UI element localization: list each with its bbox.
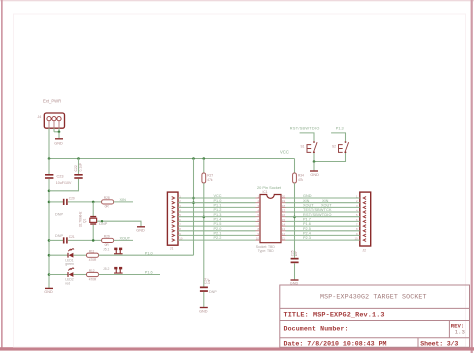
connector J1 pin 2 contact (172, 201, 175, 204)
wire C22 to VCC rail (78, 159, 80, 175)
svg-text:0R: 0R (105, 205, 110, 209)
capacitor C21 (DNP) (63, 237, 68, 243)
connector J1 pin 9 contact (172, 234, 175, 237)
wire junction to ground (313, 162, 315, 171)
resistor R12 labels (89, 269, 97, 282)
svg-text:R34: R34 (298, 173, 304, 177)
connector J1 pin 8 contact (172, 229, 175, 232)
connector J2 pin 7 contact (363, 225, 366, 228)
LED2 (red) (68, 267, 74, 277)
svg-text:Date: 7/8/2010 10:08:43 PM: Date: 7/8/2010 10:08:43 PM (284, 340, 387, 347)
svg-text:TEST/SBWTCK: TEST/SBWTCK (303, 208, 332, 212)
wire VCC to R27 (203, 159, 205, 174)
wire VCC to C23 (48, 159, 50, 175)
svg-text:J5.1: J5.1 (103, 248, 110, 252)
connector J2 pin 2 contact (363, 201, 366, 204)
svg-text:P2.2: P2.2 (214, 236, 222, 240)
svg-text:R12: R12 (89, 269, 95, 273)
svg-text:16: 16 (282, 213, 286, 217)
svg-text:VCC: VCC (280, 149, 289, 154)
wire R12 to P1.6 label (99, 274, 161, 276)
wire GND to LED2 (49, 274, 68, 276)
IC socket pin 12 stub (right) (281, 234, 286, 236)
svg-text:P2.4: P2.4 (303, 232, 311, 236)
svg-text:11: 11 (282, 237, 285, 241)
wire P2.0 (left bus) (178, 230, 256, 232)
wire VCC rail (49, 158, 295, 160)
junction XOUT branch (48, 239, 51, 242)
svg-text:C23: C23 (57, 175, 64, 179)
wire P1.3 stub (331, 133, 345, 141)
junction VCC rail x=78.5 (77, 157, 80, 160)
connector J1 (left header) body (167, 192, 178, 245)
junction P1.0 row (192, 201, 195, 204)
svg-text:19: 19 (282, 199, 286, 203)
connector J2 (right header) body (360, 192, 371, 246)
connector J4 pin 2 circle (52, 117, 56, 121)
IC socket pin 17 stub (right) (281, 211, 286, 213)
svg-text:10: 10 (256, 237, 260, 241)
IC socket pin 3 stub (256, 206, 261, 208)
svg-text:P1.0: P1.0 (214, 199, 222, 203)
svg-text:1nF: 1nF (294, 251, 298, 257)
connector J1 pin 3 contact (172, 206, 175, 209)
capacitor C25 (291, 258, 299, 263)
svg-text:P1.6: P1.6 (303, 222, 311, 226)
svg-text:DNP: DNP (55, 213, 63, 217)
wire R28 to XIN (114, 201, 133, 203)
page border frame (0, 0, 474, 1)
svg-text:IC1: IC1 (263, 190, 268, 194)
svg-text:P1.0: P1.0 (145, 251, 153, 255)
capacitor C25 labels (vertical) (290, 250, 298, 256)
svg-text:P1.3: P1.3 (214, 213, 222, 217)
wire C24 to ground (203, 292, 205, 307)
svg-text:C20: C20 (69, 197, 75, 201)
junction pins2-3 (58, 131, 61, 134)
resistor R11 (87, 253, 99, 257)
connector J4 Ext_PWR body (44, 113, 64, 128)
svg-text:DNP: DNP (55, 234, 63, 238)
IC socket body (DIP-20 with notch) (260, 195, 281, 243)
wire to connector ground (58, 132, 60, 138)
svg-text:GND: GND (199, 309, 208, 313)
switch S1 (307, 141, 317, 153)
wire P1.3 (left bus) (178, 216, 256, 218)
wire RST/SBWTDIO stub (300, 133, 314, 141)
switch S2 (339, 141, 349, 153)
wire C22 branch (49, 179, 79, 191)
svg-text:R11: R11 (89, 250, 95, 254)
wire crystal case to ground (97, 221, 141, 226)
svg-text:GND: GND (136, 229, 145, 233)
junction VCC rail x=193.5 (192, 157, 195, 160)
svg-text:red: red (65, 281, 70, 285)
resistor R29 labels (104, 235, 110, 247)
svg-text:J4: J4 (38, 115, 42, 119)
IC socket pin 9 stub (256, 234, 261, 236)
connector J1 pin 6 contact (172, 220, 175, 223)
svg-text:XIN: XIN (322, 199, 329, 203)
svg-text:VCC: VCC (214, 194, 222, 198)
wire GND (right bus) (286, 197, 360, 199)
wire P1.7 (right bus) (286, 220, 360, 222)
wire R29 to XOUT (114, 239, 133, 241)
svg-text:470R: 470R (89, 258, 97, 262)
svg-text:P1.3: P1.3 (336, 127, 344, 131)
svg-text:GND: GND (303, 194, 312, 198)
junction LED2 row (48, 273, 51, 276)
svg-text:470R: 470R (89, 277, 97, 281)
wire C20 to R28 (68, 201, 102, 203)
wire C25 to ground (294, 263, 296, 279)
svg-text:TITLE: MSP-EXPG2_Rev.1.3: TITLE: MSP-EXPG2_Rev.1.3 (284, 312, 385, 320)
svg-text:P2.5: P2.5 (303, 227, 311, 231)
resistor R27 (vertical) (202, 173, 206, 183)
wire XOUT (right bus) (286, 206, 360, 208)
junction XIN branch (48, 201, 51, 204)
wire R34 to RST row and C25 (294, 183, 296, 258)
capacitor C22 labels (vertical) (74, 163, 83, 172)
junction C22 branch (48, 190, 51, 193)
capacitor C24 labels (vertical) (203, 278, 211, 284)
IC socket pin 10 stub (256, 239, 261, 241)
connector J2 pin 8 contact (363, 229, 366, 232)
LED1 labels (65, 258, 74, 266)
svg-text:Document Number:: Document Number: (284, 325, 349, 332)
svg-text:R29: R29 (104, 235, 110, 239)
svg-text:DNP: DNP (209, 290, 217, 294)
svg-text:17: 17 (282, 208, 286, 212)
IC socket pin 2 stub (256, 202, 261, 204)
resistor R34 labels (298, 173, 304, 182)
IC socket pin 5 stub (256, 216, 261, 218)
svg-text:XOUT: XOUT (321, 204, 332, 208)
junction LED1 row (48, 254, 51, 257)
junction P1.3 row (203, 216, 206, 219)
svg-text:20 Pin Socket: 20 Pin Socket (257, 185, 282, 190)
wire J4 pins2-3 join (54, 131, 59, 133)
svg-text:DNP: DNP (99, 222, 107, 226)
connector J1 pin 10 contact (172, 239, 175, 242)
svg-text:J5.2: J5.2 (103, 267, 110, 271)
junction RST row (293, 216, 296, 219)
crystal Q1 (90, 217, 97, 224)
svg-text:47k: 47k (207, 178, 213, 182)
connector J2 pin 1 contact (363, 197, 366, 200)
title block: REV (451, 323, 465, 336)
resistor R29 (102, 238, 114, 242)
connector J2 pin 3 contact (363, 206, 366, 209)
junction VCC rail x=203.8 (203, 157, 206, 160)
ground symbol (crystal) (136, 227, 145, 233)
svg-text:20: 20 (282, 194, 286, 198)
wire VCC (left bus) (178, 197, 256, 199)
jumper J5.1 (114, 248, 123, 255)
IC socket pin 8 stub (256, 230, 261, 232)
svg-text:XIN: XIN (303, 199, 310, 203)
resistor R34 (vertical) (293, 173, 297, 183)
junction VCC row (192, 197, 195, 200)
IC socket pin 1 stub (256, 197, 261, 199)
LED1 (green) (68, 248, 74, 258)
IC socket pin 14 stub (right) (281, 225, 286, 227)
jumper J5.2 (114, 267, 123, 274)
svg-text:P1.6: P1.6 (145, 271, 153, 275)
wire GND to C21 (49, 239, 63, 241)
IC socket pin 4 stub (256, 211, 261, 213)
wire C23 to GND node (48, 179, 50, 288)
wire J4 pin1 to VCC rail (48, 128, 50, 159)
connector J4 pin 3 circle (57, 117, 61, 121)
connector J1 pin 5 contact (172, 215, 175, 218)
svg-text:18: 18 (282, 204, 286, 208)
IC socket notes (256, 245, 276, 253)
wire P1.0 (left bus) (178, 202, 256, 204)
IC socket pin 7 stub (256, 225, 261, 227)
connector J2 pin 10 contact (363, 239, 366, 242)
svg-text:R28: R28 (104, 196, 110, 200)
svg-text:C22: C22 (74, 165, 78, 171)
ground symbol (left rail) (44, 288, 53, 294)
junction VCC rail x=49 (48, 157, 51, 160)
IC socket pin 16 stub (right) (281, 216, 286, 218)
svg-text:P2.0: P2.0 (214, 227, 222, 231)
resistor R28 labels (104, 196, 110, 208)
svg-text:J2: J2 (362, 248, 366, 252)
wire R11 to P1.0 vertical (99, 254, 194, 256)
wire VCC rail corner to R34 (294, 159, 296, 174)
wire TEST/SBWTCK (right bus) (286, 211, 360, 213)
wire VCC drop + P1.0 riser (x=193.5) (193, 159, 195, 256)
svg-text:15: 15 (282, 218, 286, 222)
svg-text:Q1: Q1 (82, 218, 86, 223)
wire LED2 to R12 (73, 274, 86, 276)
svg-text:C21: C21 (69, 235, 75, 239)
IC socket pin 11 stub (right) (281, 239, 286, 241)
svg-text:P2.3: P2.3 (303, 236, 311, 240)
svg-text:S2: S2 (332, 145, 336, 149)
wire switches common (314, 153, 346, 162)
svg-text:GND: GND (44, 290, 53, 294)
connector J2 pin 5 contact (363, 215, 366, 218)
connector J4 pin 1 circle (47, 117, 51, 121)
wire P1.2 (left bus) (178, 211, 256, 213)
junction crystal top (92, 201, 95, 204)
wire LED1 to R11 (73, 254, 86, 256)
wire GND to LED1 (49, 254, 68, 256)
resistor R11 labels (89, 250, 97, 263)
resistor R27 labels (207, 173, 213, 182)
svg-text:Type: TBD: Type: TBD (258, 249, 275, 253)
wire P2.5 (right bus) (286, 230, 360, 232)
capacitor C23 (45, 174, 53, 179)
connector J2 pin 4 contact (363, 211, 366, 214)
connector J1 pin 7 contact (172, 225, 175, 228)
wire GND to C20 (49, 201, 63, 203)
crystal Q1 labels (vertical) (78, 211, 86, 227)
connector J2 pin 9 contact (363, 234, 366, 237)
svg-text:P1.1: P1.1 (214, 204, 222, 208)
ground symbol (switches) (310, 171, 319, 177)
connector J1 pin 1 contact (172, 197, 175, 200)
IC socket pin 6 stub (256, 220, 261, 222)
LED2 labels (65, 278, 74, 286)
wire P1.4 (left bus) (178, 220, 256, 222)
svg-text:P1.5: P1.5 (214, 222, 222, 226)
svg-text:0R: 0R (105, 243, 110, 247)
junction crystal case (101, 220, 103, 222)
wire J4 pin3 down (58, 128, 60, 132)
IC socket pin 15 stub (right) (281, 220, 286, 222)
svg-text:XIN: XIN (120, 198, 127, 202)
IC socket pin 18 stub (right) (281, 206, 286, 208)
capacitor C23 labels (56, 175, 72, 186)
svg-text:RST/SBWTDIO: RST/SBWTDIO (303, 213, 332, 217)
svg-text:green: green (65, 262, 74, 266)
wire J4 pin2 down (53, 128, 55, 132)
svg-text:RST/SBWTDIO: RST/SBWTDIO (290, 127, 320, 131)
IC socket pin 19 stub (right) (281, 202, 286, 204)
svg-text:13: 13 (282, 227, 286, 231)
svg-text:J1: J1 (170, 247, 174, 251)
ground symbol (C24) (199, 308, 208, 314)
junction crystal bottom (92, 239, 95, 242)
IC socket pin 20 stub (right) (281, 197, 286, 199)
wire crystal bottom lead (92, 224, 94, 240)
svg-text:XOUT: XOUT (120, 237, 131, 241)
capacitor C22 (74, 174, 82, 179)
wire P2.1 (left bus) (178, 234, 256, 236)
ground symbol (C25) (290, 280, 299, 286)
wire P1.5 (left bus) (178, 225, 256, 227)
svg-text:GND: GND (310, 173, 319, 177)
svg-text:P1.2: P1.2 (214, 208, 222, 212)
ground symbol (connector) (55, 138, 63, 140)
connector J2 pin 6 contact (363, 220, 366, 223)
svg-text:R27: R27 (207, 173, 213, 177)
svg-text:S1: S1 (301, 145, 305, 149)
wire XIN (right bus) (286, 202, 360, 204)
svg-text:47k: 47k (298, 178, 304, 182)
wire S1 bottom to junction (313, 153, 315, 162)
capacitor C20 (DNP) (63, 199, 68, 205)
wire P2.3 (right bus) (286, 239, 360, 241)
title block frame (280, 285, 470, 347)
capacitor C24 (200, 287, 208, 292)
wire P2.2 (left bus) (178, 239, 256, 241)
wire P2.4 (right bus) (286, 234, 360, 236)
wire C21 to R29 (68, 239, 102, 241)
wire R27 to P1.3 row and C24 (203, 183, 205, 287)
svg-text:MSP-EXP430G2 TARGET SOCKET: MSP-EXP430G2 TARGET SOCKET (320, 294, 427, 301)
resistor R28 (102, 200, 114, 204)
svg-text:10uF/10V: 10uF/10V (56, 181, 72, 185)
svg-text:14: 14 (282, 223, 286, 227)
wire RST/SBWTDIO (right bus) (286, 216, 360, 218)
svg-text:Sheet: 3/3: Sheet: 3/3 (420, 340, 458, 347)
svg-text:Ext_PWR: Ext_PWR (43, 99, 61, 104)
wire P1.1 (left bus) (178, 206, 256, 208)
svg-text:1nF: 1nF (207, 278, 211, 284)
wire crystal top lead (92, 202, 94, 216)
wire P1.6 (right bus) (286, 225, 360, 227)
connector J4 pin stubs (49, 121, 59, 128)
svg-text:0.1uF: 0.1uF (79, 163, 83, 172)
junction switches common (313, 160, 316, 163)
svg-text:P1.7: P1.7 (303, 218, 311, 222)
svg-text:GND: GND (54, 142, 63, 146)
svg-text:P1.4: P1.4 (214, 218, 222, 222)
IC socket pin 13 stub (right) (281, 230, 286, 232)
svg-text:XOUT: XOUT (303, 204, 314, 208)
svg-text:1.3: 1.3 (455, 328, 465, 335)
resistor R12 (87, 272, 99, 276)
svg-text:P2.1: P2.1 (214, 232, 222, 236)
connector J1 pin 4 contact (172, 211, 175, 214)
svg-text:12: 12 (282, 232, 286, 236)
